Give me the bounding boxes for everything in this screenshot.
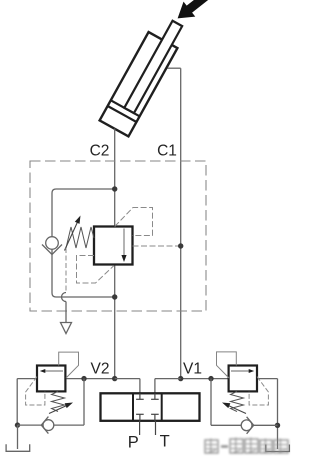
svg-text:C2: C2 bbox=[90, 143, 110, 160]
svg-text:P: P bbox=[128, 434, 139, 452]
svg-text:V1: V1 bbox=[183, 361, 202, 378]
svg-text:C1: C1 bbox=[157, 143, 177, 160]
svg-text:T: T bbox=[160, 433, 170, 451]
svg-text:V2: V2 bbox=[91, 361, 110, 378]
